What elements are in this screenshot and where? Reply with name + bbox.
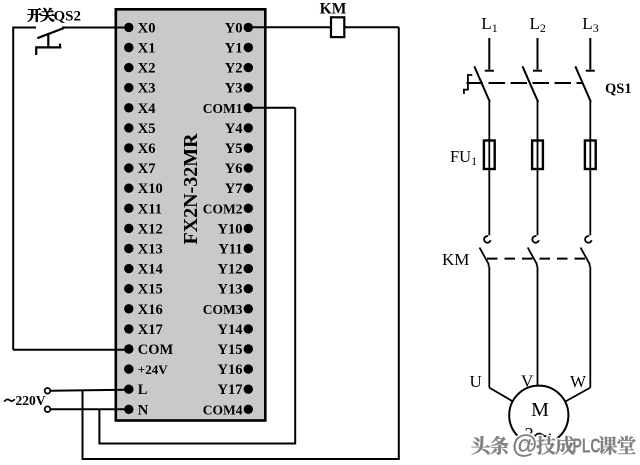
terminal Y16 (PLC output pin)	[218, 362, 253, 378]
svg-text:Y17: Y17	[218, 382, 243, 398]
svg-text:X14: X14	[138, 262, 163, 278]
terminal COM2 (PLC output pin)	[203, 201, 253, 216]
svg-text:Y12: Y12	[218, 262, 243, 278]
terminal Y4 (PLC output pin)	[225, 121, 253, 137]
svg-text:FX2N-32MR: FX2N-32MR	[180, 133, 202, 245]
terminal X15 (PLC input pin)	[124, 282, 163, 298]
supply terminal L2 (line end bar)	[533, 38, 542, 71]
terminal Y5 (PLC output pin)	[225, 141, 253, 157]
fuse FU1 pole 3	[585, 140, 596, 170]
terminal Y11 (PLC output pin)	[218, 242, 253, 258]
terminal X1 (PLC input pin)	[124, 41, 155, 57]
contactor KM linkage (dashed)	[487, 258, 591, 260]
wire QS1 pole 2 to fuse FU1	[537, 101, 539, 140]
svg-text:X6: X6	[138, 141, 156, 157]
wire fuse FU1 pole 2 to contactor KM	[537, 170, 539, 236]
terminal Y12 (PLC output pin)	[218, 262, 253, 278]
supply terminal node (L)	[45, 388, 51, 394]
switch QS2 (knife switch with operator)	[35, 28, 64, 55]
contactor KM pole 3 contact (fixed contact hook)	[585, 236, 592, 243]
svg-text:QS1: QS1	[605, 81, 632, 97]
svg-text:L1: L1	[481, 14, 497, 35]
terminal X10 (PLC input pin)	[124, 181, 163, 197]
svg-text:X1: X1	[138, 41, 156, 57]
wire supply L to terminal L	[51, 390, 126, 391]
fuse FU1 pole 1	[484, 140, 495, 170]
wire coil KM to right rail	[344, 26, 399, 28]
svg-text:X4: X4	[138, 101, 156, 117]
svg-text:220V: 220V	[16, 393, 46, 408]
wire terminal Y0 to coil KM	[252, 26, 331, 28]
terminal Y6 (PLC output pin)	[225, 161, 253, 177]
terminal Y2 (PLC output pin)	[225, 61, 253, 77]
svg-text:X5: X5	[138, 121, 156, 137]
contactor KM pole 3 blade	[581, 248, 590, 267]
switch QS1 pole 3 blade	[575, 66, 591, 102]
svg-text:PLC: PLC	[573, 434, 601, 457]
wire inner rail down to N supply wire	[99, 108, 295, 444]
svg-text:Y2: Y2	[225, 61, 243, 77]
terminal L (PLC input pin)	[124, 382, 148, 398]
wire from switch QS2 down the left rail	[13, 28, 36, 350]
svg-text:L: L	[138, 382, 148, 398]
switch QS1 linkage (dashed)	[467, 82, 583, 84]
terminal Y0 (PLC output pin)	[225, 20, 253, 36]
svg-text:Y1: Y1	[225, 41, 243, 57]
terminal Y3 (PLC output pin)	[225, 81, 253, 97]
svg-text:L3: L3	[582, 14, 598, 35]
contactor KM pole 2 contact (fixed contact hook)	[532, 236, 539, 243]
supply terminal L1 (line end bar)	[485, 38, 494, 71]
switch QS1 pole 2 blade	[523, 66, 539, 102]
svg-text:Y14: Y14	[218, 322, 243, 338]
wire contactor KM pole 2 down	[537, 267, 539, 386]
wire left rail to terminal COM	[13, 349, 125, 351]
wire phase 1 into motor terminal U	[489, 388, 516, 404]
svg-text:Y6: Y6	[225, 161, 243, 177]
terminal Y15 (PLC output pin)	[218, 342, 253, 358]
wire contactor KM pole 3 down	[589, 267, 591, 388]
svg-text:W: W	[570, 372, 587, 391]
svg-text:Y7: Y7	[225, 181, 243, 197]
svg-text:X13: X13	[138, 242, 163, 258]
svg-text:Y13: Y13	[218, 282, 243, 298]
PLC U1 FX2N-32MR body	[116, 9, 265, 420]
svg-text:KM: KM	[320, 0, 347, 17]
fuse FU1 pole 2	[532, 140, 543, 170]
terminal X17 (PLC input pin)	[124, 322, 163, 338]
contactor KM pole 2 blade	[528, 248, 537, 267]
wire supply N to terminal N	[51, 408, 126, 410]
svg-text:Y5: Y5	[225, 141, 243, 157]
terminal N (PLC input pin)	[124, 402, 149, 418]
terminal X6 (PLC input pin)	[124, 141, 155, 157]
wire terminal COM1 to inner rail	[252, 107, 295, 109]
terminal X3 (PLC input pin)	[124, 81, 155, 97]
wire phase 3 into motor terminal W	[562, 388, 591, 404]
svg-text:Y11: Y11	[218, 242, 242, 258]
svg-text:QS2: QS2	[54, 8, 82, 24]
terminal X14 (PLC input pin)	[124, 262, 163, 278]
wire switch QS2 to terminal X0	[62, 27, 125, 29]
terminal Y7 (PLC output pin)	[225, 181, 253, 197]
terminal Y14 (PLC output pin)	[218, 322, 253, 338]
svg-text:X10: X10	[138, 181, 163, 197]
svg-text:Y16: Y16	[218, 362, 243, 378]
svg-text:X16: X16	[138, 302, 163, 318]
svg-text:Y0: Y0	[225, 20, 243, 36]
label ~220V (supply voltage)	[4, 393, 46, 408]
terminal Y1 (PLC output pin)	[225, 41, 253, 57]
terminal X5 (PLC input pin)	[124, 121, 155, 137]
svg-text:X3: X3	[138, 81, 156, 97]
svg-text:X7: X7	[138, 161, 156, 177]
svg-text:COM: COM	[138, 342, 174, 358]
terminal X2 (PLC input pin)	[124, 61, 155, 77]
svg-text:X2: X2	[138, 61, 156, 77]
terminal Y17 (PLC output pin)	[218, 382, 253, 398]
svg-text:L2: L2	[530, 14, 546, 35]
wire fuse FU1 pole 3 to contactor KM	[589, 170, 591, 236]
terminal X16 (PLC input pin)	[124, 302, 163, 318]
watermark 头条@技成PLC课堂	[471, 429, 636, 459]
coil KM (contactor coil)	[331, 17, 344, 37]
motor M 3-phase	[509, 386, 568, 446]
svg-text:Y15: Y15	[218, 342, 243, 358]
svg-text:+24V: +24V	[138, 362, 168, 377]
terminal COM1 (PLC output pin)	[203, 101, 253, 116]
wire QS1 pole 3 to fuse FU1	[589, 101, 591, 140]
wire fuse FU1 pole 1 to contactor KM	[488, 170, 490, 236]
terminal X4 (PLC input pin)	[124, 101, 155, 117]
svg-text:COM4: COM4	[203, 402, 243, 417]
svg-text:FU1: FU1	[450, 147, 477, 168]
svg-text:COM3: COM3	[203, 302, 243, 317]
svg-text:COM1: COM1	[203, 101, 243, 116]
svg-text:N: N	[138, 402, 149, 418]
supply terminal L3 (line end bar)	[586, 38, 595, 71]
label 开关QS2 (switch QS2)	[27, 8, 81, 25]
svg-text:@: @	[512, 429, 537, 459]
svg-text:X12: X12	[138, 221, 163, 237]
switch QS1 pole 1 blade	[474, 66, 490, 102]
wire contactor KM pole 1 down	[488, 267, 490, 388]
svg-text:X11: X11	[138, 201, 162, 217]
terminal X11 (PLC input pin)	[124, 201, 162, 217]
terminal X0 (PLC input pin)	[124, 20, 155, 36]
svg-text:COM2: COM2	[203, 201, 243, 216]
svg-text:X0: X0	[138, 20, 156, 36]
terminal X12 (PLC input pin)	[124, 221, 163, 237]
svg-text:X17: X17	[138, 322, 163, 338]
contactor KM pole 1 blade	[480, 248, 489, 267]
contactor KM pole 1 contact (fixed contact hook)	[484, 236, 491, 243]
terminal COM3 (PLC output pin)	[203, 302, 253, 317]
svg-text:M: M	[531, 399, 549, 421]
svg-text:X15: X15	[138, 282, 163, 298]
terminal COM4 (PLC output pin)	[203, 402, 253, 417]
terminal X7 (PLC input pin)	[124, 161, 155, 177]
switch QS1 operator hook	[464, 75, 472, 94]
svg-text:KM: KM	[442, 250, 469, 269]
terminal +24V (PLC input pin)	[124, 362, 168, 377]
svg-text:Y10: Y10	[218, 221, 243, 237]
supply terminal node (N)	[45, 406, 51, 412]
wire right rail down to L supply wire	[83, 27, 399, 459]
svg-text:Y3: Y3	[225, 81, 243, 97]
wire QS1 pole 1 to fuse FU1	[488, 101, 490, 140]
terminal Y10 (PLC output pin)	[218, 221, 253, 237]
terminal Y13 (PLC output pin)	[218, 282, 253, 298]
terminal X13 (PLC input pin)	[124, 242, 163, 258]
terminal COM (PLC input pin)	[124, 342, 173, 358]
svg-text:U: U	[470, 372, 482, 391]
svg-text:Y4: Y4	[225, 121, 243, 137]
